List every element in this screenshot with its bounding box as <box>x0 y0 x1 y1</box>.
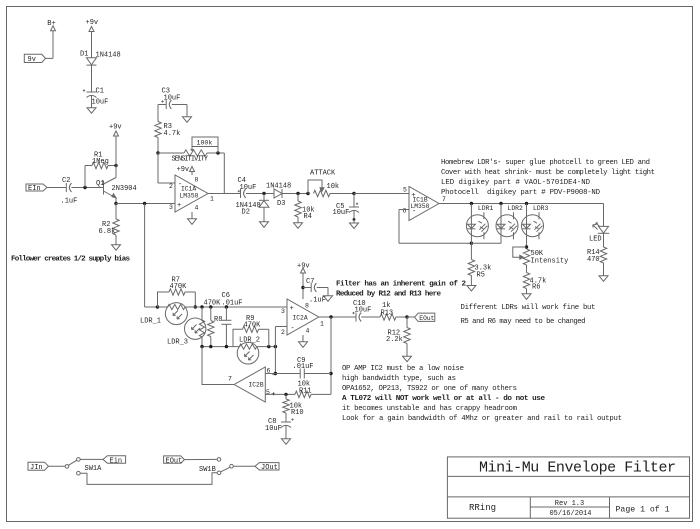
svg-text:A TL072 will NOT work well or: A TL072 will NOT work well or at all - d… <box>342 395 545 403</box>
svg-text:9v: 9v <box>28 56 36 64</box>
svg-text:+: + <box>177 202 181 210</box>
svg-text:5: 5 <box>403 187 407 194</box>
svg-text:R11: R11 <box>299 388 312 396</box>
svg-text:Mini-Mu Envelope Filter: Mini-Mu Envelope Filter <box>479 460 676 477</box>
svg-text:1: 1 <box>320 321 324 328</box>
svg-text:LDR1: LDR1 <box>478 205 494 212</box>
svg-text:IC2B: IC2B <box>249 382 264 389</box>
svg-text:B+: B+ <box>47 20 55 28</box>
svg-text:8: 8 <box>195 177 199 184</box>
svg-text:4.7k: 4.7k <box>164 130 181 138</box>
svg-text:2N3904: 2N3904 <box>112 185 137 193</box>
svg-text:JIn: JIn <box>30 464 43 472</box>
svg-text:Rev 1.3: Rev 1.3 <box>555 500 584 508</box>
svg-text:470K: 470K <box>244 322 262 330</box>
svg-text:SW1B: SW1B <box>199 466 216 474</box>
svg-text:EOut: EOut <box>166 458 183 466</box>
svg-text:Follower creates 1/2 supply bi: Follower creates 1/2 supply bias <box>11 255 130 263</box>
svg-text:OPA1652, OP213, TS922 or one o: OPA1652, OP213, TS922 or one of many oth… <box>342 385 517 393</box>
svg-text:1N4148: 1N4148 <box>266 183 291 191</box>
svg-text:2: 2 <box>169 183 173 190</box>
svg-text:7: 7 <box>228 376 232 383</box>
svg-text:10uF: 10uF <box>355 307 372 315</box>
svg-text:.01uF: .01uF <box>293 363 314 371</box>
svg-text:IC2A: IC2A <box>293 315 308 322</box>
svg-text:ATTACK: ATTACK <box>310 170 336 178</box>
svg-text:JOut: JOut <box>261 464 278 472</box>
svg-text:-: - <box>291 325 295 333</box>
svg-text:LDR_2: LDR_2 <box>239 337 260 345</box>
svg-text:+: + <box>271 391 275 399</box>
svg-text:10uF: 10uF <box>240 184 257 192</box>
svg-text:8: 8 <box>305 303 309 310</box>
svg-text:10k: 10k <box>327 183 340 191</box>
svg-text:-: - <box>271 372 275 380</box>
svg-text:2.2k: 2.2k <box>386 336 403 344</box>
svg-text:C1: C1 <box>96 88 104 96</box>
svg-text:4: 4 <box>195 205 199 212</box>
svg-text:D3: D3 <box>277 200 285 208</box>
svg-text:LM358: LM358 <box>411 203 430 210</box>
svg-text:7: 7 <box>442 196 446 203</box>
svg-text:LED digikey part # VAOL-5701DE: LED digikey part # VAOL-5701DE4-ND <box>441 179 591 187</box>
svg-text:EIn: EIn <box>28 185 41 193</box>
svg-text:470K: 470K <box>170 283 188 291</box>
svg-text:SW1A: SW1A <box>85 465 103 473</box>
svg-text:.1uF: .1uF <box>309 297 326 305</box>
svg-text:1N4148: 1N4148 <box>96 52 121 60</box>
svg-text:IC1A: IC1A <box>181 186 196 193</box>
svg-text:it becomes unstable and has cr: it becomes unstable and has crappy headr… <box>342 405 517 413</box>
svg-text:RRing: RRing <box>469 503 496 513</box>
svg-text:C7: C7 <box>306 278 314 286</box>
svg-text:470: 470 <box>587 256 600 264</box>
svg-text:1: 1 <box>210 196 214 203</box>
svg-text:C2: C2 <box>62 177 70 185</box>
svg-text:Different LDRs will work fine: Different LDRs will work fine but <box>461 304 596 312</box>
svg-text:10uF: 10uF <box>92 99 109 107</box>
svg-text:10uF: 10uF <box>333 209 350 217</box>
svg-text:100k: 100k <box>197 139 213 146</box>
svg-text:R10: R10 <box>291 409 304 417</box>
svg-text:10uF: 10uF <box>265 425 282 433</box>
svg-text:Look for a gain bandwidth of 4: Look for a gain bandwidth of 4Mhz or gre… <box>342 415 622 423</box>
svg-text:+9v: +9v <box>177 166 190 174</box>
svg-text:.1uF: .1uF <box>61 198 78 206</box>
svg-text:R6: R6 <box>532 284 540 292</box>
svg-text:EOut: EOut <box>419 315 434 322</box>
svg-text:+: + <box>290 305 294 313</box>
svg-text:3: 3 <box>281 308 285 315</box>
svg-text:R5: R5 <box>477 272 485 280</box>
svg-text:LDR_1: LDR_1 <box>140 318 161 326</box>
svg-text:Homebrew LDR's- super glue pho: Homebrew LDR's- super glue photcell to g… <box>441 159 650 167</box>
svg-text:LDR3: LDR3 <box>533 205 549 212</box>
svg-text:R5 and R6 may need to be chang: R5 and R6 may need to be changed <box>461 318 586 326</box>
svg-text:4: 4 <box>306 328 310 335</box>
svg-text:+9v: +9v <box>86 19 99 27</box>
svg-text:LDR_3: LDR_3 <box>167 339 188 347</box>
svg-text:R8: R8 <box>214 316 222 324</box>
svg-text:6.8k: 6.8k <box>99 228 116 236</box>
svg-text:+9v: +9v <box>109 124 122 132</box>
svg-text:D1: D1 <box>80 51 88 59</box>
svg-text:Q1: Q1 <box>96 180 104 188</box>
svg-text:Ein: Ein <box>110 457 123 465</box>
svg-text:D2: D2 <box>242 209 250 217</box>
svg-text:SENSITIVITY: SENSITIVITY <box>172 155 209 163</box>
svg-text:6: 6 <box>403 208 407 215</box>
svg-text:Intensity: Intensity <box>531 258 569 266</box>
svg-text:05/16/2014: 05/16/2014 <box>549 510 591 518</box>
svg-text:Page 1 of 1: Page 1 of 1 <box>616 504 670 514</box>
svg-text:470K: 470K <box>204 300 222 308</box>
svg-text:R4: R4 <box>304 213 312 221</box>
svg-text:5: 5 <box>266 389 270 396</box>
svg-text:LED: LED <box>589 236 602 244</box>
svg-text:1Meg: 1Meg <box>92 158 109 166</box>
svg-text:LDR2: LDR2 <box>508 205 524 212</box>
svg-text:2: 2 <box>281 329 285 336</box>
svg-text:OP AMP IC2 must be a low noise: OP AMP IC2 must be a low noise <box>342 365 464 373</box>
svg-text:high bandwidth type, such as: high bandwidth type, such as <box>342 375 456 383</box>
svg-text:6: 6 <box>267 368 271 375</box>
svg-text:LM358: LM358 <box>180 193 199 200</box>
svg-text:Reduced by R12 and R13 here: Reduced by R12 and R13 here <box>336 291 441 299</box>
svg-text:Photocell digikey part # PDV-: Photocell digikey part # PDV-P9008-ND <box>441 189 601 197</box>
svg-text:3: 3 <box>169 204 173 211</box>
svg-text:Cover with heat shrink- must b: Cover with heat shrink- must be complete… <box>441 169 655 177</box>
svg-text:Filter has an inherent gain of: Filter has an inherent gain of 2 <box>336 281 466 289</box>
svg-text:R13: R13 <box>381 310 394 318</box>
svg-text:.01uF: .01uF <box>222 300 243 308</box>
